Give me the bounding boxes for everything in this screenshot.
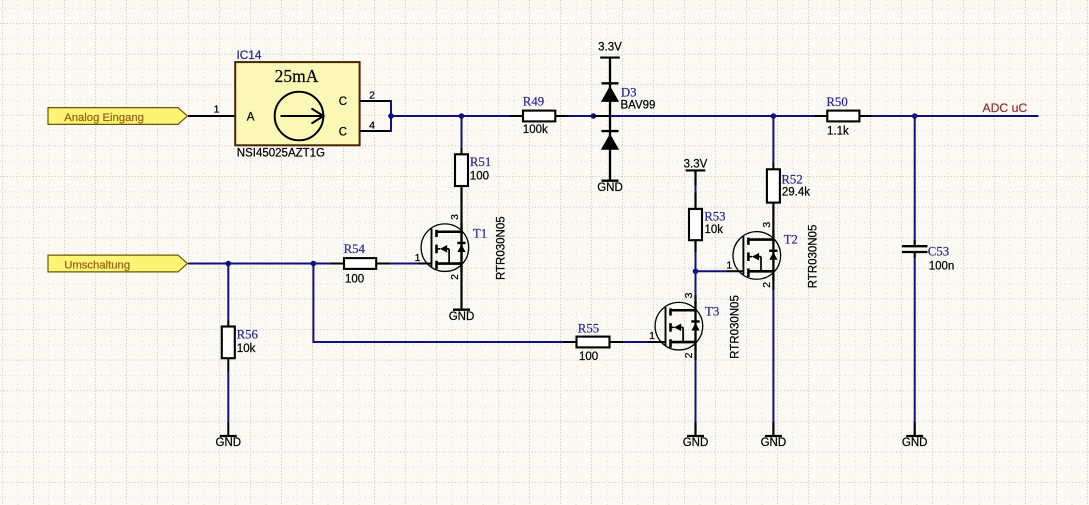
svg-text:RTR030N05: RTR030N05 <box>496 216 508 280</box>
diode D3 upper diode <box>601 83 619 102</box>
power symbol 3.3V above R53 <box>684 159 708 171</box>
value 1.1k <box>827 126 849 138</box>
value 100 (R55) <box>579 351 598 363</box>
wire T3 source to GND <box>694 349 696 436</box>
svg-text:2: 2 <box>369 90 375 102</box>
svg-text:2: 2 <box>761 282 773 288</box>
svg-text:10k: 10k <box>237 343 256 355</box>
svg-text:R51: R51 <box>470 155 491 169</box>
junction C53 tap <box>912 113 918 119</box>
resistor R50 <box>827 111 859 122</box>
power symbol 3.3V above D3 <box>598 42 622 58</box>
net label ADC uC <box>983 101 1028 115</box>
part number RTR030N05 (T1) <box>496 216 508 280</box>
svg-text:Umschaltung: Umschaltung <box>64 259 130 271</box>
value 100 (R54) <box>345 274 364 286</box>
wire 3.3V to R53 <box>694 170 696 209</box>
designator C53 <box>928 245 949 259</box>
svg-text:Analog Eingang: Analog Eingang <box>64 112 144 124</box>
diode D3 lower diode <box>601 131 619 150</box>
svg-text:GND: GND <box>683 437 709 449</box>
svg-text:RTR030N05: RTR030N05 <box>807 225 819 289</box>
svg-text:R53: R53 <box>704 210 725 224</box>
wire pin2 down to node <box>390 100 392 116</box>
T3 pin 3 label <box>683 292 695 298</box>
svg-text:10k: 10k <box>705 224 724 236</box>
IC14 pin 2 <box>360 90 391 102</box>
designator R53 <box>704 210 725 224</box>
svg-text:100: 100 <box>345 274 364 286</box>
svg-text:4: 4 <box>369 120 375 132</box>
designator R49 <box>523 95 544 109</box>
svg-text:GND: GND <box>216 437 242 449</box>
pin name C (pin 4) <box>339 126 347 138</box>
wire main net IC14 to R49 <box>391 115 523 117</box>
junction R55 branch tap <box>311 261 317 267</box>
svg-text:100: 100 <box>579 351 598 363</box>
wire R51 to T1 drain and T1 source to GND <box>460 186 462 310</box>
pin name A <box>247 111 255 123</box>
wire C53 to GND <box>914 252 916 436</box>
wire stub to R50 <box>815 115 828 117</box>
IC14 pin 4 <box>360 120 391 132</box>
ground below T3 <box>683 436 709 449</box>
wire Umschaltung to R54 <box>188 263 344 265</box>
wire node down to R51 <box>461 116 463 154</box>
ground below R56 <box>216 436 242 449</box>
wire node down to C53 <box>914 116 916 246</box>
junction R56 tap <box>226 261 232 267</box>
wire R56 to GND <box>227 358 229 436</box>
port Umschaltung <box>48 255 188 272</box>
ground below T1 <box>449 310 475 323</box>
pin number 1 of IC14 <box>214 103 220 115</box>
svg-text:T2: T2 <box>784 233 798 247</box>
svg-text:2: 2 <box>449 274 461 280</box>
resistor R52 <box>767 169 780 202</box>
svg-text:R50: R50 <box>826 95 847 109</box>
svg-text:NSI45025AZT1G: NSI45025AZT1G <box>237 148 325 160</box>
svg-text:3.3V: 3.3V <box>684 159 708 171</box>
wire R55 to T3 gate <box>610 341 666 343</box>
wire R49 to D3 node <box>555 115 593 117</box>
wire node down to R56 <box>227 264 229 327</box>
T2 pin 3 label <box>761 222 773 228</box>
wire branch down and right to R55 <box>313 264 576 344</box>
svg-text:A: A <box>247 111 255 123</box>
T2 pin 2 label <box>761 282 773 288</box>
wire T2 source to GND <box>772 280 774 437</box>
junction D3 tap <box>591 113 597 119</box>
value 10k (R53) <box>705 224 724 236</box>
wire port to IC14 pin 1 <box>188 115 235 117</box>
wire R52 to T2 drain <box>772 203 774 233</box>
value 29.4k <box>782 187 810 199</box>
svg-text:29.4k: 29.4k <box>782 187 810 199</box>
resistor R56 <box>222 327 235 359</box>
svg-text:R52: R52 <box>781 172 802 186</box>
svg-text:T3: T3 <box>705 304 719 318</box>
svg-text:GND: GND <box>449 311 475 323</box>
part number RTR030N05 (T2) <box>807 225 819 289</box>
wire R53 to junction <box>694 240 696 271</box>
designator R56 <box>237 328 259 342</box>
part number RTR030N05 (T3) <box>730 295 742 359</box>
designator R51 <box>470 155 491 169</box>
T1 pin 3 label <box>449 214 461 220</box>
svg-text:C: C <box>339 96 347 108</box>
wire D3 to R52 node <box>611 115 815 117</box>
designator T3 <box>705 304 719 318</box>
junction R52 tap <box>771 113 777 119</box>
ground below D3 <box>597 181 623 194</box>
svg-text:1: 1 <box>649 330 655 342</box>
resistor R54 <box>344 258 376 269</box>
svg-text:R49: R49 <box>523 95 544 109</box>
designator D3 <box>621 86 637 100</box>
svg-text:BAV99: BAV99 <box>621 100 656 112</box>
svg-text:25mA: 25mA <box>275 66 319 86</box>
wire pin4 up to node <box>390 116 392 132</box>
pin name C (pin 2) <box>339 96 347 108</box>
ground below T2 <box>761 436 787 449</box>
op-amp U? : current source IC14 body <box>235 62 359 145</box>
port Analog Eingang <box>48 108 188 125</box>
svg-text:R55: R55 <box>578 322 599 336</box>
svg-text:100n: 100n <box>929 261 955 273</box>
junction R51 tap <box>459 113 465 119</box>
resistor R51 <box>455 154 468 186</box>
svg-text:3: 3 <box>683 292 695 298</box>
T1 pin 2 label <box>449 274 461 280</box>
wire R54 to T1 gate <box>376 263 431 265</box>
svg-text:1: 1 <box>214 103 220 115</box>
svg-text:100: 100 <box>470 171 489 183</box>
resistor R53 <box>689 209 702 240</box>
svg-text:D3: D3 <box>621 86 637 100</box>
T3 pin 2 label <box>683 352 695 358</box>
svg-text:ADC uC: ADC uC <box>983 101 1028 115</box>
designator R52 <box>781 172 802 186</box>
svg-text:GND: GND <box>597 182 623 194</box>
ground below C53 <box>902 436 928 449</box>
diode D3 vertical line <box>609 58 611 181</box>
resistor R55 <box>577 337 610 348</box>
capacitor C53 <box>902 246 928 252</box>
designator T2 <box>784 233 798 247</box>
wire stub junction to D3 <box>593 115 611 117</box>
value 10k (R56) <box>237 343 256 355</box>
wire node down to R52 <box>772 116 774 169</box>
designator IC14 <box>237 48 262 62</box>
svg-text:2: 2 <box>683 352 695 358</box>
svg-text:1: 1 <box>726 259 732 271</box>
value 100k <box>523 124 548 136</box>
value BAV99 <box>621 100 656 112</box>
resistor R49 <box>523 111 555 122</box>
value 100n <box>929 261 955 273</box>
value 100 <box>470 171 489 183</box>
svg-text:1: 1 <box>415 252 421 264</box>
svg-text:R56: R56 <box>237 328 259 342</box>
designator R55 <box>578 322 599 336</box>
svg-text:3: 3 <box>761 222 773 228</box>
svg-text:T1: T1 <box>473 227 487 241</box>
designator R50 <box>826 95 847 109</box>
svg-text:3.3V: 3.3V <box>598 42 622 54</box>
svg-text:RTR030N05: RTR030N05 <box>730 295 742 359</box>
T2 pin 1 label <box>726 259 732 271</box>
T1 pin 1 label <box>415 252 421 264</box>
wire junction down to T3 drain <box>695 271 697 303</box>
T3 pin 1 label <box>649 330 655 342</box>
svg-text:R54: R54 <box>344 242 366 256</box>
svg-text:1.1k: 1.1k <box>827 126 849 138</box>
svg-text:3: 3 <box>449 214 461 220</box>
part number NSI45025AZT1G <box>237 148 325 160</box>
wire R50 to ADC uC <box>859 115 1038 117</box>
svg-text:IC14: IC14 <box>237 48 262 62</box>
svg-text:GND: GND <box>761 437 787 449</box>
svg-text:100k: 100k <box>523 124 548 136</box>
transistor T3 <box>655 302 703 351</box>
junction below R53 <box>693 269 699 275</box>
wire junction to T2 gate <box>696 270 744 272</box>
transistor T1 <box>421 223 469 272</box>
current source circle symbol <box>275 92 324 141</box>
svg-text:C53: C53 <box>928 245 949 259</box>
transistor T2 <box>733 231 781 280</box>
value label 25mA <box>275 66 319 86</box>
svg-text:C: C <box>339 126 347 138</box>
junction at IC14 output <box>388 113 394 119</box>
svg-text:GND: GND <box>902 437 928 449</box>
designator T1 <box>473 227 487 241</box>
designator R54 <box>344 242 366 256</box>
